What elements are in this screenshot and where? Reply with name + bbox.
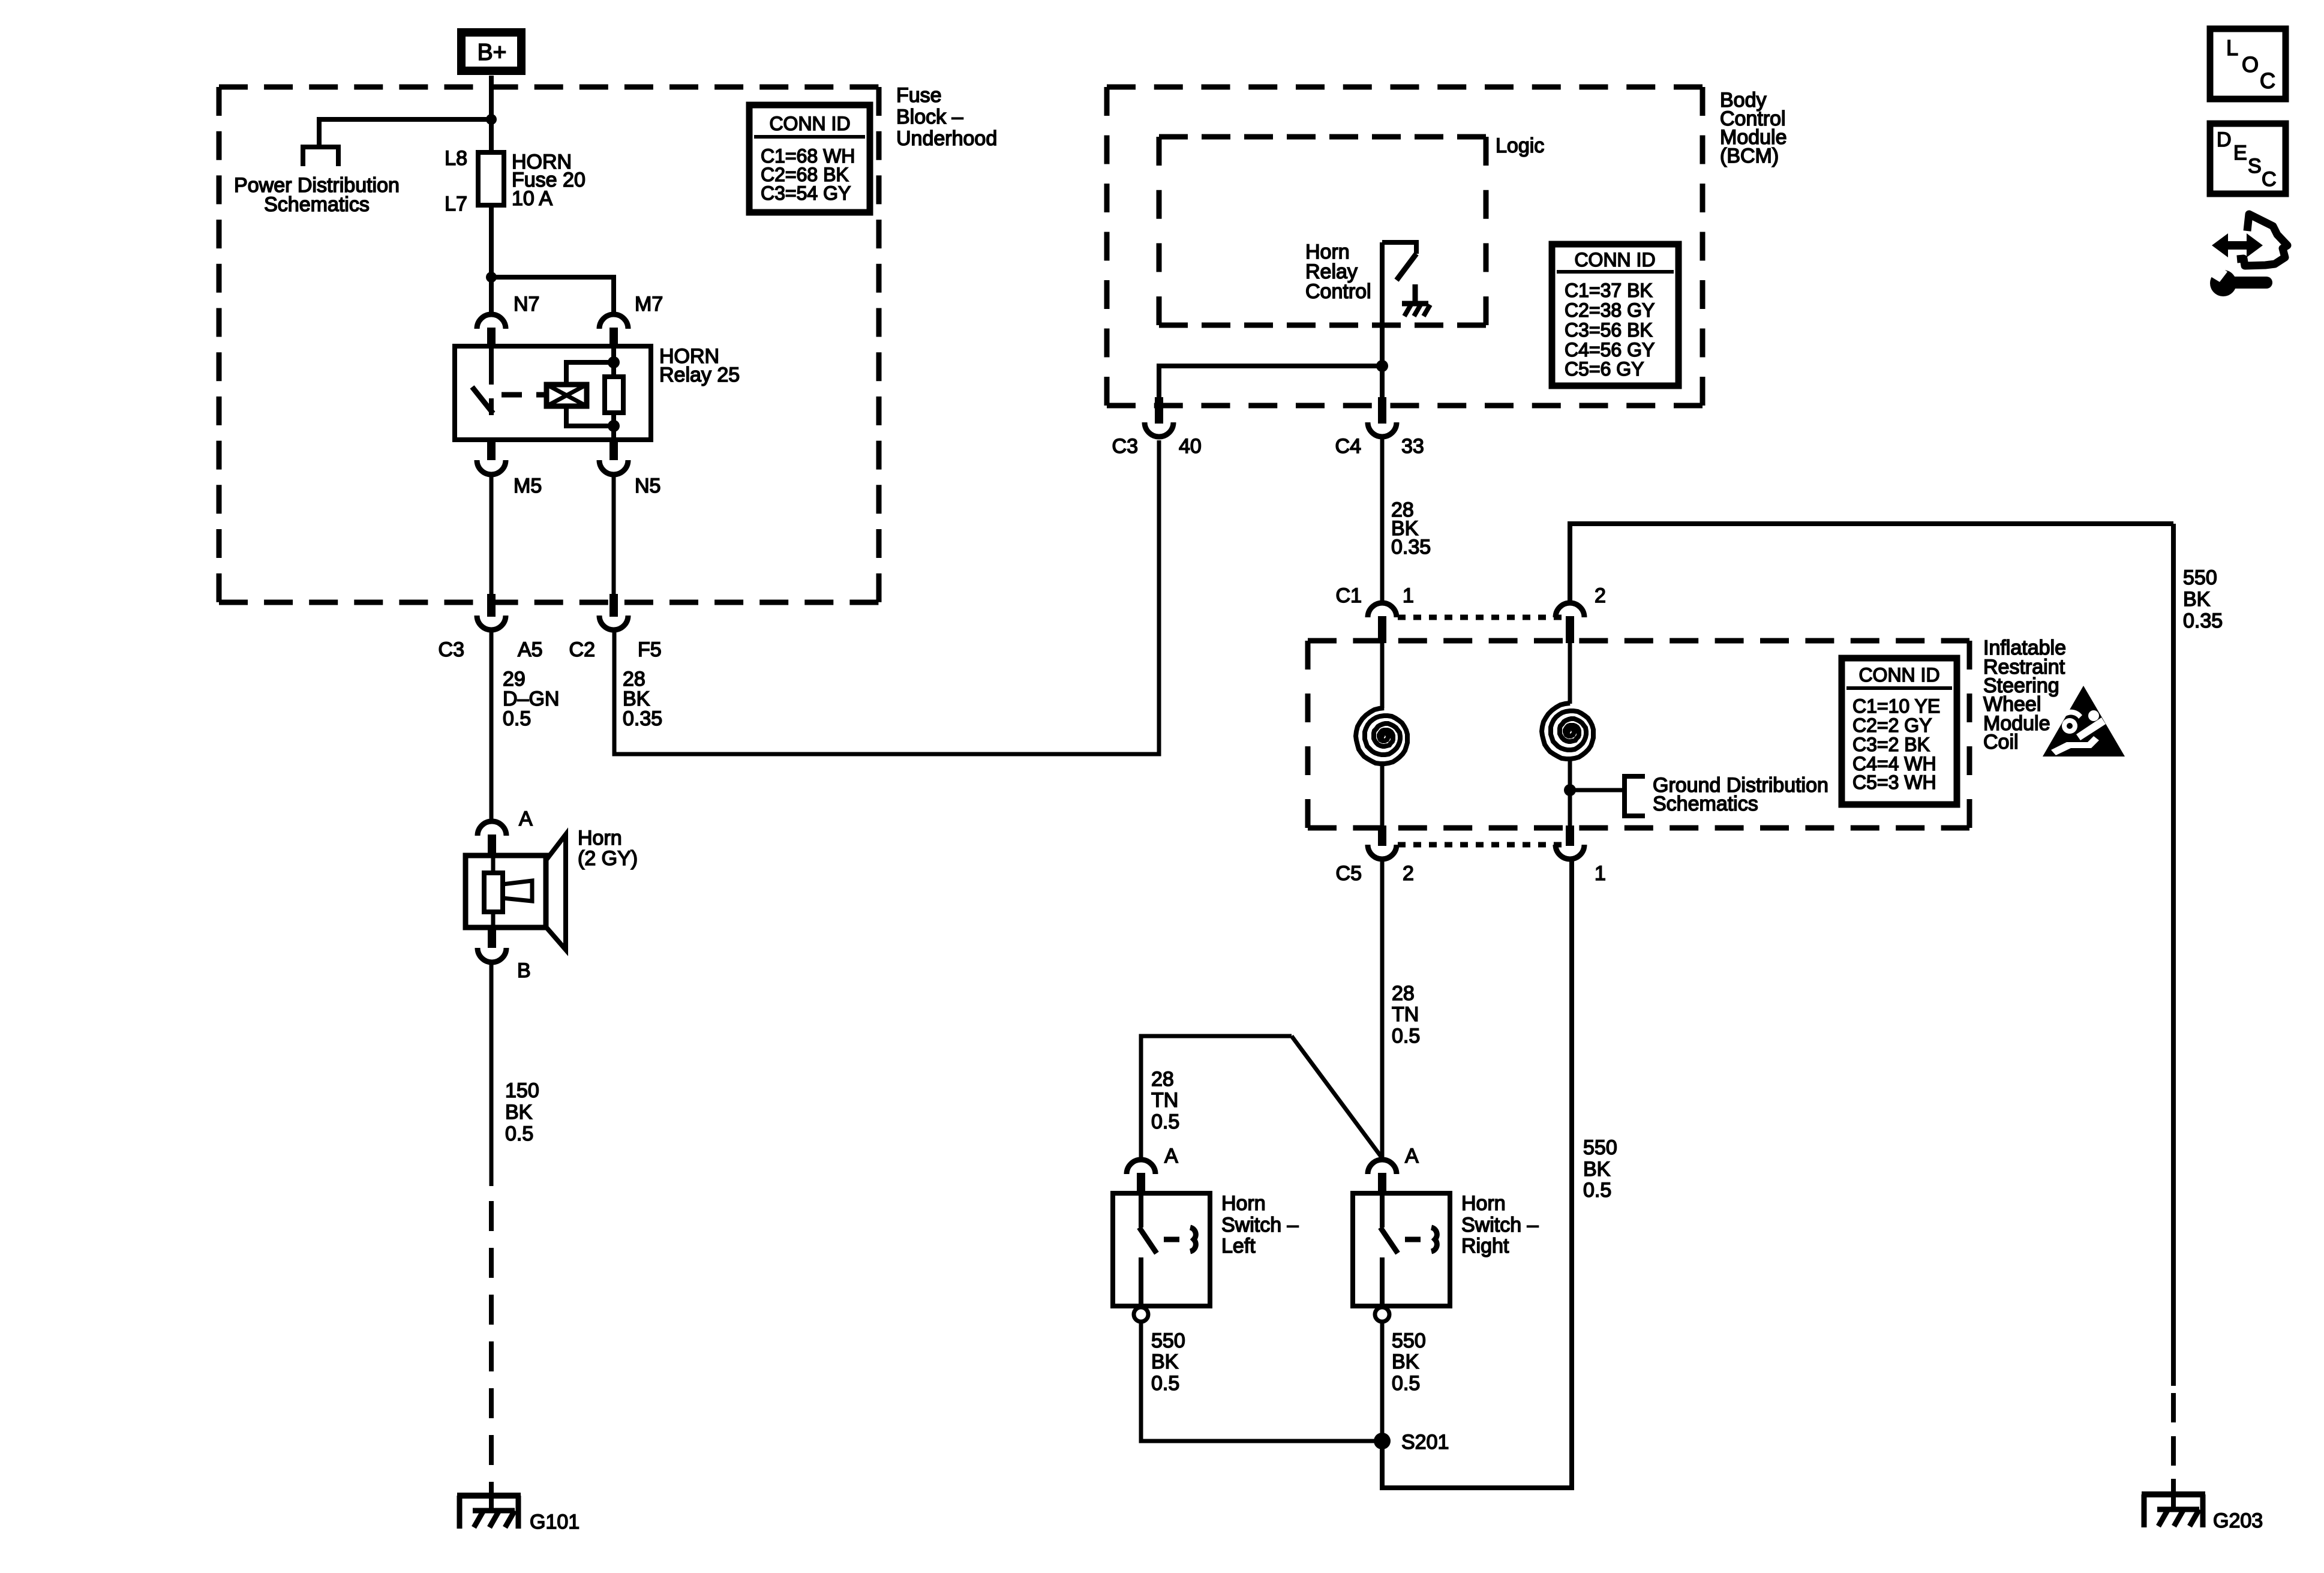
- svg-text:B: B: [517, 959, 531, 982]
- icon jump arrow with wrench: [2205, 214, 2287, 296]
- horn switch right box: [1353, 1192, 1539, 1306]
- svg-text:550: 550: [1151, 1329, 1185, 1352]
- connector 2 (coil): [1556, 584, 1606, 643]
- wire fuse to relay branch junction: [489, 205, 494, 313]
- label Horn Relay Control: [1305, 241, 1371, 303]
- relay coil bracket wiring: [566, 362, 614, 385]
- svg-text:A: A: [519, 807, 533, 830]
- wire into left spiral: [1380, 643, 1385, 709]
- label 28 BK 0.35: [623, 668, 662, 730]
- horn switch right contact: [1380, 1193, 1398, 1306]
- svg-text:(BCM): (BCM): [1720, 145, 1779, 167]
- connector M5: [477, 440, 542, 497]
- horn switch left contact: [1139, 1193, 1157, 1306]
- label Inflatable Restraint Steering Wheel Module Coil: [1983, 637, 2066, 754]
- svg-text:0.35: 0.35: [2183, 610, 2223, 632]
- wire branch to power distribution pointer: [319, 119, 491, 147]
- svg-text:A: A: [1164, 1145, 1178, 1167]
- svg-text:BK: BK: [2183, 588, 2211, 611]
- svg-text:C: C: [2260, 68, 2275, 93]
- svg-text:G101: G101: [530, 1511, 580, 1533]
- wire diagonal branch: [1292, 1036, 1382, 1157]
- off-page pointer Ground Distribution: [1625, 776, 1645, 816]
- svg-text:Horn: Horn: [578, 827, 622, 849]
- junction below fuse: [486, 272, 497, 283]
- svg-text:CONN ID: CONN ID: [769, 113, 850, 134]
- label 150 BK 0.5: [505, 1079, 539, 1145]
- wire 28 BK 0.35 from C4 to coil connector 1: [1380, 437, 1385, 603]
- connector A (horn): [478, 807, 533, 857]
- coil right spiral: [1542, 703, 1593, 759]
- connector C2 F5 (inline): [569, 594, 662, 661]
- wire junction to C3 pin: [1159, 366, 1382, 406]
- wire 150 BK 0.5 dashed part: [489, 1201, 494, 1493]
- wire 550 BK 0.5 (right switch to S201): [1380, 1322, 1385, 1441]
- svg-text:0.5: 0.5: [1151, 1110, 1179, 1133]
- svg-text:Right: Right: [1461, 1235, 1509, 1257]
- svg-text:Block –: Block –: [896, 106, 963, 128]
- svg-text:Horn: Horn: [1221, 1192, 1266, 1215]
- label 550 BK 0.5 (right wire): [1583, 1136, 1617, 1202]
- svg-text:C3=56 BK: C3=56 BK: [1565, 319, 1653, 341]
- svg-text:F5: F5: [638, 638, 662, 661]
- svg-text:0.5: 0.5: [1392, 1025, 1420, 1047]
- connector A (horn switch right): [1368, 1145, 1419, 1193]
- svg-text:E: E: [2233, 142, 2247, 164]
- warning triangle (airbag): [2043, 686, 2125, 757]
- svg-text:L7: L7: [445, 193, 467, 215]
- svg-text:D: D: [2217, 128, 2232, 151]
- svg-text:C2=2 GY: C2=2 GY: [1852, 715, 1932, 736]
- svg-text:550: 550: [1392, 1329, 1426, 1352]
- horn relay control driver switch: [1382, 242, 1416, 280]
- connector N5: [599, 440, 660, 497]
- svg-text:C4: C4: [1335, 435, 1361, 458]
- label Fuse Block - Underhood: [896, 84, 997, 150]
- connector 1 (coil): [1556, 825, 1606, 885]
- svg-text:A5: A5: [518, 638, 543, 661]
- svg-text:Switch –: Switch –: [1221, 1214, 1299, 1236]
- svg-text:C2: C2: [569, 638, 595, 661]
- svg-text:33: 33: [1401, 435, 1424, 458]
- label 29 D-GN 0.5: [503, 668, 559, 730]
- svg-text:550: 550: [2183, 566, 2217, 589]
- connector C5 2 (coil): [1336, 825, 1414, 885]
- wire S201 to coil connector 1: [1382, 859, 1572, 1488]
- svg-text:0.35: 0.35: [1391, 536, 1431, 559]
- svg-text:2: 2: [1595, 584, 1606, 607]
- label Body Control Module (BCM): [1720, 89, 1787, 167]
- connector C4 33 (BCM): [1335, 397, 1424, 458]
- svg-text:M7: M7: [635, 293, 663, 316]
- svg-text:C1: C1: [1336, 584, 1362, 607]
- connector body line C1 (dotted): [1398, 615, 1562, 620]
- label 550 BK 0.35: [2183, 566, 2223, 632]
- svg-text:L: L: [2226, 35, 2238, 60]
- relay internal resistor: [605, 346, 623, 440]
- connector C3 A5 (inline): [439, 594, 543, 661]
- svg-text:CONN ID: CONN ID: [1858, 664, 1939, 686]
- horn switch right lower terminal circle: [1375, 1307, 1389, 1322]
- relay K25 HORN Relay 25: [455, 345, 740, 440]
- horn sounder: [466, 827, 638, 950]
- horn switch left box: [1113, 1192, 1299, 1306]
- svg-text:B+: B+: [478, 40, 507, 65]
- connector N7: [477, 293, 539, 346]
- svg-text:C5: C5: [1336, 862, 1362, 885]
- svg-text:Relay 25: Relay 25: [659, 364, 740, 386]
- svg-text:Switch –: Switch –: [1461, 1214, 1539, 1236]
- wire 150 BK 0.5 solid part: [490, 962, 494, 1186]
- svg-text:Underhood: Underhood: [896, 127, 997, 150]
- connector B (horn): [478, 927, 531, 982]
- svg-text:Schematics: Schematics: [264, 193, 370, 216]
- body control module BCM dashed box: [1107, 87, 1703, 406]
- svg-text:S201: S201: [1401, 1431, 1449, 1454]
- wire B+ down to junction: [489, 76, 494, 152]
- svg-text:C4=56 GY: C4=56 GY: [1565, 339, 1655, 361]
- wire N5 to fuse block edge: [612, 475, 616, 602]
- relay switch contact: [472, 346, 493, 415]
- connector body line C5 (dotted): [1398, 842, 1562, 848]
- wire 28 BK 0.35 from F5 to BCM C3: [614, 440, 1159, 754]
- wire to ground distribution pointer: [1570, 788, 1625, 792]
- svg-text:40: 40: [1179, 435, 1202, 458]
- horn switch left lower terminal circle: [1134, 1307, 1148, 1322]
- connector M7: [599, 293, 663, 346]
- svg-text:M5: M5: [514, 475, 542, 497]
- fuse F20 HORN Fuse 20 10 A: [445, 147, 585, 215]
- svg-text:Horn: Horn: [1461, 1192, 1506, 1215]
- wire 550 BK 0.5 (left switch): [1141, 1322, 1376, 1441]
- svg-text:1: 1: [1595, 862, 1606, 885]
- svg-text:BK: BK: [1583, 1158, 1611, 1181]
- wire 550 BK 0.35 top horizontal: [1570, 524, 2173, 603]
- horn switch right linkage dashes and button: [1405, 1227, 1437, 1251]
- svg-text:G203: G203: [2213, 1509, 2263, 1532]
- wire branch to relay coil pin M7: [491, 277, 614, 313]
- svg-text:(2 GY): (2 GY): [578, 847, 638, 870]
- icon LOC: [2210, 29, 2286, 99]
- svg-text:C3=2 BK: C3=2 BK: [1852, 734, 1930, 755]
- connector C3 40 (BCM): [1112, 397, 1202, 458]
- logic dashed box: [1159, 137, 1486, 325]
- svg-text:BK: BK: [505, 1101, 533, 1124]
- svg-text:BK: BK: [1151, 1350, 1179, 1373]
- svg-text:C3: C3: [1112, 435, 1138, 458]
- svg-text:150: 150: [505, 1079, 539, 1102]
- internal ground (BCM): [1402, 284, 1430, 316]
- svg-text:C1=10 YE: C1=10 YE: [1852, 695, 1940, 717]
- svg-text:0.5: 0.5: [1392, 1372, 1420, 1395]
- fuse block underhood dashed box: [219, 87, 879, 602]
- svg-text:TN: TN: [1151, 1089, 1178, 1112]
- wire branch to horn switch left: [1141, 1036, 1292, 1160]
- svg-text:Control: Control: [1305, 280, 1371, 303]
- label 550 BK 0.5 (left): [1151, 1329, 1185, 1395]
- connector C1 1 (coil): [1336, 584, 1414, 643]
- svg-text:Logic: Logic: [1496, 134, 1544, 157]
- splice S201: [1374, 1431, 1449, 1454]
- svg-text:CONN ID: CONN ID: [1574, 249, 1655, 271]
- svg-text:BK: BK: [1392, 1350, 1419, 1373]
- label 550 BK 0.5 (right switch): [1392, 1329, 1426, 1395]
- ground G203: [2142, 1479, 2263, 1532]
- svg-text:Left: Left: [1221, 1235, 1256, 1257]
- svg-text:A: A: [1405, 1145, 1419, 1167]
- label Power Distribution Schematics: [234, 174, 400, 216]
- svg-text:Coil: Coil: [1983, 731, 2019, 754]
- svg-text:C1=37 BK: C1=37 BK: [1565, 280, 1653, 301]
- svg-text:C5=3 WH: C5=3 WH: [1852, 772, 1936, 793]
- junction inside BCM: [1376, 360, 1388, 372]
- label Ground Distribution Schematics: [1653, 774, 1828, 815]
- steering wheel module coil dashed box: [1308, 641, 1969, 828]
- junction to ground distribution pointer: [1564, 784, 1576, 796]
- wire 550 BK 0.35 right vertical: [2171, 524, 2176, 1386]
- svg-text:C2=38 GY: C2=38 GY: [1565, 299, 1655, 321]
- svg-text:C5=6 GY: C5=6 GY: [1565, 358, 1644, 380]
- svg-text:10 A: 10 A: [512, 187, 553, 210]
- svg-text:N5: N5: [635, 475, 660, 497]
- wire into right spiral: [1568, 643, 1572, 704]
- svg-text:Fuse: Fuse: [896, 84, 942, 107]
- horn switch left linkage dashes and button: [1164, 1227, 1196, 1251]
- svg-text:2: 2: [1403, 862, 1414, 885]
- label 28 TN 0.5 (right): [1392, 982, 1420, 1047]
- CONN ID table (BCM): [1552, 244, 1679, 386]
- wire out of left spiral: [1380, 764, 1385, 834]
- svg-text:L8: L8: [445, 147, 467, 170]
- junction at B+ branch: [486, 114, 497, 125]
- label 28 BK 0.35 (C4 wire): [1391, 499, 1431, 559]
- relay coil (box with X): [547, 385, 587, 406]
- svg-text:0.5: 0.5: [1151, 1372, 1179, 1395]
- svg-text:0.5: 0.5: [1583, 1179, 1611, 1202]
- wire M5 to fuse block edge: [490, 475, 494, 602]
- wire 28 TN 0.5 from C5 to horn switch right: [1380, 859, 1385, 1160]
- coil left spiral: [1356, 708, 1407, 764]
- off-page pointer Power Distribution: [303, 147, 338, 166]
- svg-text:C: C: [2262, 168, 2277, 191]
- svg-text:Schematics: Schematics: [1653, 792, 1758, 815]
- svg-text:C3: C3: [439, 638, 464, 661]
- CONN ID table (coil module): [1842, 658, 1957, 804]
- svg-text:S: S: [2248, 155, 2262, 178]
- label 28 TN 0.5 (left): [1151, 1068, 1179, 1133]
- wire 550 BK 0.35 dashed part: [2171, 1393, 2176, 1479]
- svg-text:0.5: 0.5: [503, 707, 531, 730]
- svg-text:N7: N7: [514, 293, 539, 316]
- wire 29 D-GN 0.5 to horn: [490, 630, 494, 821]
- ground G101: [457, 1482, 580, 1533]
- svg-text:O: O: [2242, 52, 2259, 77]
- svg-text:0.5: 0.5: [505, 1122, 533, 1145]
- svg-text:C3=54 GY: C3=54 GY: [761, 182, 851, 204]
- svg-text:28: 28: [1392, 982, 1415, 1005]
- svg-text:TN: TN: [1392, 1003, 1419, 1026]
- connector A (horn switch left): [1127, 1145, 1178, 1193]
- svg-text:1: 1: [1403, 584, 1414, 607]
- svg-text:0.35: 0.35: [623, 707, 662, 730]
- icon DESC: [2210, 124, 2286, 194]
- svg-text:550: 550: [1583, 1136, 1617, 1159]
- wire relay control to junction: [1380, 242, 1385, 406]
- svg-text:28: 28: [1151, 1068, 1174, 1091]
- CONN ID table (fuse block): [749, 105, 870, 212]
- power symbol B+: [461, 32, 521, 71]
- wire out of right spiral: [1568, 759, 1572, 834]
- relay mechanical linkage dashes: [502, 392, 545, 398]
